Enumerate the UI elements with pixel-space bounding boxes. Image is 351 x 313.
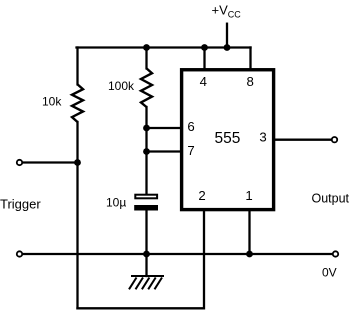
node dot: pin 1 / 0V junction — [246, 251, 253, 258]
wire: +Vcc top rail — [77, 46, 251, 48]
wire: capacitor bottom lead to 0V rail — [145, 211, 147, 255]
wire: pin 1 stub down to 0V rail — [248, 210, 250, 254]
wire: ground stub — [145, 254, 147, 276]
node dot: pin 6 junction — [143, 125, 150, 132]
wire: trigger terminal to node — [23, 161, 78, 163]
svg-text:7: 7 — [187, 143, 194, 158]
wire: 0V rail — [23, 253, 332, 255]
wire: bottom rail — [78, 307, 204, 309]
svg-text:100k: 100k — [108, 79, 135, 93]
terminal: 0V right — [333, 251, 338, 256]
svg-text:3: 3 — [259, 129, 266, 144]
wire: 10k top lead — [76, 48, 78, 85]
terminal: 0V left — [17, 251, 22, 256]
node dot: rail / pin4 junction — [201, 44, 208, 51]
wire: pin 3 output horizontal — [274, 139, 331, 141]
node dot: trigger junction — [74, 159, 81, 166]
svg-text:Trigger: Trigger — [0, 197, 41, 212]
wire: 10k bottom lead to trigger node — [76, 122, 78, 163]
wire: 100k bottom lead down to capacitor — [145, 107, 147, 194]
svg-text:2: 2 — [198, 188, 205, 203]
wire: trigger node down left side — [76, 163, 78, 309]
node dot: rail / Vcc junction — [224, 44, 231, 51]
svg-text:10k: 10k — [42, 95, 62, 109]
wire: pin 7 horizontal — [147, 150, 183, 152]
resistor 100k — [141, 68, 152, 107]
svg-text:4: 4 — [200, 74, 207, 89]
svg-text:6: 6 — [187, 119, 194, 134]
resistor 10k — [72, 84, 83, 122]
svg-text:+VCC: +VCC — [212, 3, 242, 20]
capacitor 10u bottom plate — [134, 205, 158, 211]
svg-text:555: 555 — [214, 130, 240, 147]
terminal: Trigger input — [17, 160, 22, 165]
wire: pin 8 stub from rail to IC top — [249, 48, 251, 71]
node dot: ground junction — [143, 251, 150, 258]
svg-text:0V: 0V — [322, 266, 337, 280]
svg-text:8: 8 — [247, 74, 254, 89]
svg-text:10µ: 10µ — [106, 196, 126, 210]
wire: +Vcc vertical stub — [226, 24, 228, 48]
svg-text:Output: Output — [312, 192, 350, 206]
node dot: pin 7 junction — [143, 148, 150, 155]
svg-text:1: 1 — [245, 188, 252, 203]
wire: pin 2 stub down to bottom rail — [203, 210, 205, 308]
wire: pin 6 horizontal — [147, 127, 183, 129]
terminal: Output — [332, 137, 337, 142]
wire: pin 4 stub from rail to IC top — [203, 48, 205, 71]
op-amp/IC 555 body — [182, 70, 274, 210]
node dot: rail / 100k junction — [143, 44, 150, 51]
ground — [129, 276, 164, 289]
capacitor 10u top plate — [135, 195, 157, 199]
wire: 100k top lead — [145, 48, 147, 69]
